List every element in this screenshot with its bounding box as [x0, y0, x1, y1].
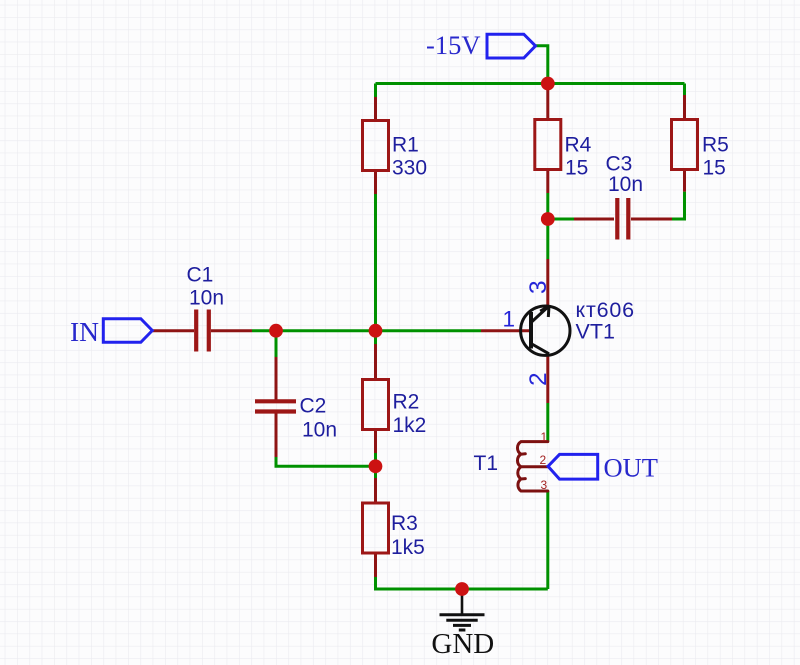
lead C2 top [275, 357, 278, 400]
wire C2 top [275, 331, 278, 357]
port flag IN [103, 319, 152, 343]
lead R4 bottom [546, 171, 549, 194]
node junction R4/C3 [541, 212, 555, 226]
svg-text:1: 1 [503, 307, 516, 332]
lead VT1 base [481, 329, 531, 332]
svg-text:15: 15 [565, 157, 588, 180]
lead R2 bottom [374, 430, 377, 454]
lead R3 top [374, 478, 377, 503]
svg-text:IN: IN [70, 316, 99, 347]
svg-text:R3: R3 [391, 512, 418, 535]
resistor R2 [363, 380, 389, 430]
wire node to VT1 collector [546, 219, 549, 259]
node junction R2/R3 [369, 459, 383, 473]
capacitor C2 [255, 401, 296, 411]
resistor R5 [672, 120, 698, 170]
lead VT1 collector [546, 259, 549, 306]
wire C3 right to R5 [672, 192, 685, 219]
lead C1 right [211, 329, 252, 332]
transistor VT1 emitter stroke [531, 344, 549, 354]
wire -15V stub [536, 46, 548, 84]
svg-text:2: 2 [540, 453, 547, 467]
svg-text:R2: R2 [393, 391, 420, 414]
svg-text:GND: GND [431, 628, 494, 660]
svg-text:R4: R4 [565, 134, 592, 157]
wire R5 top [683, 84, 686, 96]
capacitor C3 [617, 198, 628, 240]
node junction GND [455, 582, 469, 596]
lead R2 top [374, 344, 377, 380]
svg-text:R5: R5 [702, 134, 729, 157]
ground symbol bars [440, 615, 485, 630]
transformer T1 coil [517, 442, 547, 491]
lead C3 right [631, 218, 672, 221]
port flag -15V [487, 34, 536, 58]
resistor R4 [535, 120, 561, 170]
node junction R1/R2 [369, 324, 383, 338]
lead C3 left [574, 218, 614, 221]
transistor VT1 base bar [529, 312, 533, 349]
svg-text:1k5: 1k5 [391, 536, 425, 559]
node junction -15V rail [541, 77, 555, 91]
svg-text:10n: 10n [189, 287, 224, 310]
lead R3 bottom [374, 553, 377, 577]
svg-text:C2: C2 [300, 395, 327, 418]
wire node to C3 left [548, 218, 574, 221]
wire T1 pin3 down [546, 491, 549, 589]
svg-text:2: 2 [525, 372, 552, 386]
svg-text:3: 3 [541, 478, 548, 492]
wire main signal line [252, 329, 481, 332]
svg-text:10n: 10n [302, 419, 337, 442]
wire R2 bottom [374, 453, 377, 466]
lead R4 top [546, 87, 549, 120]
port flag OUT [548, 454, 598, 479]
transistor VT1 collector stroke with arrow [531, 306, 549, 323]
svg-text:-15V: -15V [426, 30, 480, 60]
lead VT1 emitter [546, 356, 549, 404]
lead R1 bottom [374, 171, 377, 195]
wire R1 top [374, 84, 377, 98]
lead R5 top [683, 95, 686, 120]
wire R1 bottom to main line [374, 194, 377, 331]
lead C2 bottom [275, 413, 278, 457]
svg-text:1: 1 [541, 430, 548, 444]
resistor R3 [363, 503, 389, 553]
svg-text:330: 330 [392, 157, 427, 180]
lead R5 bottom [683, 171, 686, 192]
wire top rail [376, 82, 685, 85]
svg-text:1k2: 1k2 [393, 414, 427, 437]
wire R2 top [374, 331, 377, 344]
svg-text:R1: R1 [392, 134, 419, 157]
svg-text:3: 3 [525, 280, 552, 294]
resistor R1 [363, 121, 389, 171]
wire R3 bottom to ground rail [376, 577, 548, 589]
svg-text:C1: C1 [187, 264, 214, 287]
svg-text:OUT: OUT [604, 453, 658, 483]
capacitor C1 [196, 310, 209, 352]
lead R1 top [374, 97, 377, 121]
wire VT1 emitter to T1 [546, 403, 549, 442]
wire R3 top [374, 466, 377, 478]
node junction C1/C2 [269, 324, 283, 338]
svg-text:T1: T1 [474, 452, 499, 475]
wire C2 bottom to node [276, 457, 376, 466]
lead IN to C1 [152, 329, 194, 332]
transistor Q VT1 circle [521, 306, 570, 355]
svg-text:10n: 10n [608, 173, 643, 196]
ground symbol stem [461, 589, 464, 614]
wire R4 bottom to node [546, 193, 549, 219]
svg-text:VT1: VT1 [576, 319, 615, 343]
svg-text:15: 15 [703, 157, 726, 180]
